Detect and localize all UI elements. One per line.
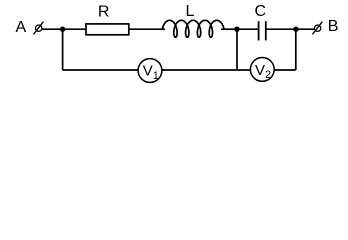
svg-text:C: C <box>255 3 267 20</box>
svg-text:R: R <box>98 3 110 20</box>
svg-text:B: B <box>328 18 339 35</box>
wire J2 down riser <box>236 29 238 70</box>
wire J1 down riser <box>62 29 64 70</box>
wire bottom J1 to V1 <box>63 69 138 71</box>
wire J1 to R <box>63 28 86 30</box>
terminal A <box>34 22 44 35</box>
svg-text:V: V <box>255 62 265 79</box>
node J1 junction dot <box>60 27 65 32</box>
voltmeter V1 <box>138 59 162 83</box>
svg-text:2: 2 <box>265 69 271 81</box>
wire J3 to terminal B <box>296 28 314 30</box>
wire C to J3 <box>267 28 296 30</box>
terminal B <box>312 22 322 35</box>
svg-text:A: A <box>16 19 27 36</box>
node J3 junction dot <box>293 27 298 32</box>
node J2 junction dot <box>234 27 239 32</box>
svg-text:1: 1 <box>153 70 159 82</box>
wire V1 to V2 <box>162 69 250 71</box>
svg-text:L: L <box>186 3 195 20</box>
resistor R <box>86 24 129 35</box>
wire L to J2 <box>221 28 237 30</box>
wire R to L <box>129 28 165 30</box>
voltmeter V2 <box>250 58 274 82</box>
wire J3 down riser <box>295 29 297 70</box>
wire A to J1 <box>42 28 63 30</box>
wire J2 to C <box>237 28 258 30</box>
inductor L <box>162 20 224 37</box>
capacitor C left plate <box>258 21 260 40</box>
svg-text:V: V <box>143 63 153 80</box>
wire V2 to J3 riser <box>275 69 296 71</box>
capacitor C right plate <box>265 21 267 40</box>
